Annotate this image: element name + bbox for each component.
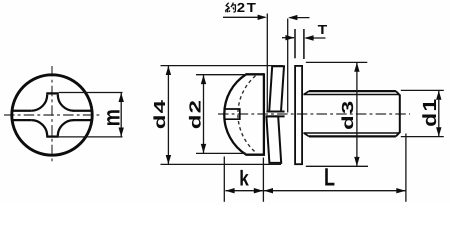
svg-text:d4: d4 — [152, 99, 169, 129]
svg-text:d2: d2 — [187, 99, 204, 129]
svg-text:m: m — [99, 109, 125, 126]
svg-text:L: L — [324, 164, 335, 192]
svg-text:T: T — [318, 22, 328, 37]
svg-text:d1: d1 — [420, 97, 441, 126]
svg-text:2T: 2T — [237, 0, 258, 15]
svg-text:d3: d3 — [340, 100, 357, 130]
svg-text:k: k — [239, 166, 249, 190]
